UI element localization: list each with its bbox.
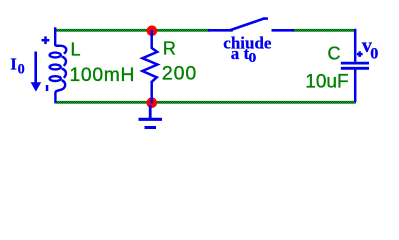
inductor L1 coil	[50, 29, 67, 102]
svg-text:C: C	[328, 44, 341, 64]
wire top left (inductor to switch)	[56, 29, 211, 32]
resistor R zigzag	[142, 31, 157, 102]
capacitor C1 leads	[354, 29, 357, 102]
svg-text:a t: a t	[231, 44, 250, 63]
svg-text:I: I	[10, 55, 17, 74]
plus sign at capacitor	[357, 51, 363, 57]
svg-text:100mH: 100mH	[70, 65, 136, 86]
svg-text:0: 0	[18, 62, 25, 78]
node bottom (junction dot)	[147, 97, 158, 108]
svg-text:200: 200	[162, 62, 197, 84]
svg-text:L: L	[71, 39, 81, 59]
svg-text:R: R	[163, 39, 176, 59]
svg-text:0: 0	[370, 45, 378, 62]
current arrow	[34, 52, 37, 84]
capacitor plate top	[341, 62, 369, 65]
wire bottom	[55, 101, 357, 104]
node top (junction dot)	[147, 26, 158, 37]
capacitor plate bottom	[341, 67, 369, 70]
switch S1	[210, 19, 293, 31]
svg-text:0: 0	[249, 51, 257, 66]
plus sign at inductor top	[42, 36, 50, 44]
minus sign at inductor bottom	[46, 85, 49, 91]
svg-text:10uF: 10uF	[305, 71, 348, 92]
ground	[139, 105, 163, 128]
wire top right (switch to capacitor)	[293, 29, 357, 32]
